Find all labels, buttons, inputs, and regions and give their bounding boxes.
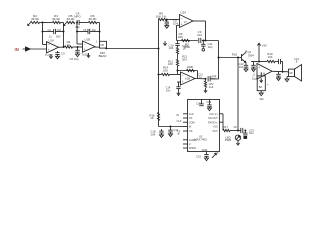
- wire fb2 left vertical: [76, 23, 78, 32]
- capacitor C13 label: [198, 73, 203, 79]
- svg-text:49.9K: 49.9K: [31, 17, 40, 21]
- op-amp U1B pins: [82, 53, 90, 57]
- wire minus stub 2: [77, 32, 83, 45]
- IC U3 left pin 3: [183, 121, 195, 124]
- svg-text:LM: LM: [262, 73, 265, 76]
- IC U3 left pin 1: [183, 113, 194, 116]
- resistor R9 label: [184, 42, 191, 49]
- wire to U2B minus: [159, 74, 181, 76]
- svg-text:33p: 33p: [75, 25, 80, 29]
- wire input: [30, 48, 47, 50]
- bottom text 1: [177, 129, 181, 136]
- node G junction: [205, 40, 207, 42]
- capacitor C23 label: [267, 52, 273, 59]
- wire top2b: [97, 22, 100, 24]
- svg-text:+: +: [182, 80, 184, 84]
- node mid1 left junction: [42, 31, 44, 33]
- svg-text:U1A: U1A: [49, 39, 55, 43]
- capacitor C4 label: [74, 12, 81, 19]
- capacitor C24: [251, 62, 255, 69]
- buzzer ground: [259, 91, 263, 96]
- ground g1: [56, 56, 60, 59]
- svg-text:FB: FB: [101, 43, 105, 47]
- op-amp U2A part: [184, 21, 187, 24]
- node S junction: [282, 71, 284, 73]
- resistor R4 label: [67, 40, 71, 47]
- svg-text:−: −: [181, 17, 183, 21]
- node A junction: [42, 22, 44, 24]
- svg-text:CLK: CLK: [176, 119, 181, 123]
- svg-text:−: −: [258, 75, 260, 79]
- test point TP2 label: [166, 86, 171, 93]
- svg-text:+: +: [258, 66, 260, 70]
- capacitor C2 label: [48, 28, 62, 32]
- svg-text:CLK: CLK: [189, 113, 194, 116]
- svg-text:BZ: BZ: [259, 85, 263, 89]
- resistor R11 label: [168, 59, 173, 66]
- capacitor C22 label: [239, 62, 244, 69]
- ground g14: [244, 69, 248, 72]
- wire r17 to node: [230, 130, 241, 132]
- node E junction: [158, 48, 160, 50]
- wire out1b: [73, 46, 83, 48]
- wire fb left vertical: [42, 23, 44, 45]
- op-amp U1A pins: [45, 53, 53, 57]
- op-amp U2B minus: [182, 74, 184, 78]
- svg-text:uF: uF: [177, 132, 180, 136]
- resistor R3 label: [52, 14, 61, 21]
- IC bottom arrow: [212, 152, 219, 158]
- svg-text:100K: 100K: [187, 65, 194, 69]
- IC U3 right text 1: [209, 113, 218, 116]
- svg-text:V-: V-: [189, 143, 192, 146]
- op-amp U2B: [181, 72, 196, 85]
- wire out row78: [210, 78, 218, 80]
- wire U2A out: [193, 20, 206, 22]
- capacitor C5: [88, 29, 90, 34]
- resistor R13 label: [187, 65, 194, 69]
- capacitor C18: [159, 129, 163, 135]
- resistor R5: [67, 21, 75, 23]
- power +9V: [257, 43, 266, 47]
- resistor R13: [187, 69, 195, 71]
- wire fb2 right vertical: [99, 23, 101, 42]
- node mid2 left junction: [76, 31, 78, 33]
- resistor R9: [182, 39, 190, 41]
- svg-text:104: 104: [173, 21, 178, 25]
- resistor R3: [53, 21, 61, 23]
- capacitor C25: [276, 72, 280, 78]
- IC U3 right pin 8: [220, 113, 224, 115]
- node R junction: [258, 61, 260, 63]
- wire U4 out: [273, 70, 289, 73]
- net label row: [176, 113, 181, 123]
- svg-text:+: +: [48, 48, 50, 52]
- svg-text:1uF: 1uF: [209, 85, 214, 89]
- svg-text:−: −: [182, 74, 184, 78]
- svg-text:10n: 10n: [166, 88, 171, 92]
- op-amp U1B minus: [84, 42, 86, 46]
- svg-text:COM: COM: [189, 121, 195, 124]
- capacitor C21: [243, 131, 247, 139]
- op-amp U2A name: [181, 10, 187, 14]
- resistor R2: [31, 21, 40, 23]
- transistor Q2 label: [225, 135, 232, 142]
- capacitor C4: [77, 20, 79, 25]
- wire row40: [177, 40, 198, 42]
- divider chain mid2: [177, 54, 179, 60]
- ground g13: [236, 141, 239, 145]
- svg-text:10K: 10K: [163, 69, 168, 73]
- svg-text:32k: 32k: [259, 97, 264, 101]
- svg-text:RATIO-L: RATIO-L: [208, 121, 218, 124]
- chassis tick 1: [28, 23, 31, 26]
- IC U3 bottom text: [202, 149, 208, 152]
- resistor R14: [162, 73, 170, 75]
- svg-text:SO-OUT: SO-OUT: [208, 117, 218, 120]
- svg-text:C6 10p: C6 10p: [69, 57, 78, 61]
- svg-text:IN: IN: [177, 113, 180, 117]
- svg-text:5: 5: [254, 74, 256, 77]
- svg-text:10K 1%: 10K 1%: [156, 14, 167, 18]
- wire bus1: [106, 48, 158, 50]
- svg-text:CS: CS: [189, 117, 193, 120]
- ground g6: [177, 92, 180, 96]
- IC U3 left pin 6: [183, 139, 196, 142]
- svg-text:+OS: +OS: [213, 126, 218, 129]
- node M junction: [170, 126, 172, 128]
- IC U3 right text 2: [208, 117, 218, 120]
- wire mid2 right: [90, 31, 100, 33]
- svg-text:100: 100: [268, 55, 273, 59]
- op-amp U1A minus: [48, 43, 50, 47]
- wire right vertical: [218, 41, 220, 80]
- svg-text:10u: 10u: [249, 131, 254, 135]
- svg-text:1K: 1K: [233, 125, 237, 129]
- ground g9: [208, 108, 212, 111]
- resistor R15 label: [209, 82, 214, 89]
- node O junction: [244, 130, 246, 132]
- svg-text:C16: C16: [207, 101, 212, 104]
- speaker LS1 label: [294, 57, 299, 64]
- transistor Q1: [242, 52, 247, 62]
- svg-text:104: 104: [169, 46, 174, 50]
- speaker ground stem: [287, 77, 289, 80]
- IC U3 left pin 4: [183, 126, 191, 129]
- IC U3 right pin 7: [220, 121, 224, 123]
- svg-text:+: +: [181, 23, 183, 27]
- node P label: [232, 52, 238, 56]
- node IN label: [15, 47, 19, 52]
- ground g10: [205, 158, 209, 161]
- transistor Q1 label: [248, 50, 252, 54]
- node C junction: [77, 46, 79, 48]
- op-amp U1A plus: [48, 48, 50, 52]
- speaker LS1: [289, 65, 302, 82]
- svg-text:10p: 10p: [208, 45, 213, 49]
- svg-text:104: 104: [197, 33, 202, 37]
- wire to Q1: [238, 57, 242, 59]
- svg-text:SP: SP: [289, 72, 293, 75]
- node N junction: [237, 130, 239, 132]
- svg-text:+9V: +9V: [262, 44, 267, 48]
- capacitor C17 label: [174, 128, 179, 132]
- wire main vertical: [158, 20, 160, 127]
- resistor R9 name: [178, 32, 183, 39]
- svg-text:50V: 50V: [56, 34, 61, 38]
- op-amp U1B: [83, 41, 96, 52]
- capacitor C2: [54, 29, 56, 34]
- capacitor C5 label: [83, 28, 96, 32]
- capacitor C23: [279, 59, 281, 64]
- test point TP1 label: [207, 42, 212, 49]
- resistor R5 label: [66, 14, 75, 21]
- svg-text:10K: 10K: [168, 62, 173, 66]
- ground g16: [277, 78, 281, 81]
- test point TP1: [201, 41, 205, 52]
- resistor R16 label: [149, 113, 155, 120]
- wire row126: [159, 126, 184, 128]
- power arrow P1: [163, 41, 166, 45]
- input arrow: [23, 47, 31, 51]
- op-amp U4 label: [254, 77, 258, 81]
- resistor R11 value: [182, 55, 188, 62]
- capacitor C9: [199, 38, 201, 43]
- capacitor C21 label: [249, 128, 255, 135]
- ground g12: [160, 135, 164, 138]
- wire U2A plus stub: [177, 25, 180, 40]
- svg-text:104: 104: [239, 65, 244, 69]
- node mid1 right junction: [63, 31, 65, 33]
- op-amp U2B name: [185, 76, 190, 80]
- resistor R17 label: [223, 125, 229, 129]
- op-amp U2A minus: [181, 17, 183, 21]
- svg-text:+: +: [267, 83, 269, 87]
- svg-text:PWR: PWR: [225, 138, 232, 142]
- svg-text:U2B: U2B: [185, 76, 190, 80]
- wire fb right vertical: [63, 23, 65, 48]
- node out1 junction: [63, 46, 65, 48]
- resistor R4: [65, 46, 73, 48]
- op-amp U2B plus: [182, 80, 184, 84]
- op-amp U2A plus: [181, 23, 183, 27]
- resistor R17: [223, 129, 230, 131]
- buzzer BZ1: [257, 72, 265, 90]
- IC bottom label: [196, 155, 201, 159]
- svg-text:IN: IN: [189, 126, 192, 129]
- resistor R15: [204, 79, 206, 88]
- capacitor C6 label: [69, 57, 78, 61]
- ground g15: [252, 69, 256, 72]
- IC U3 right text 4: [213, 126, 218, 129]
- wire to U2A: [167, 19, 180, 21]
- resistor R14 label: [163, 66, 169, 73]
- svg-text:−: −: [48, 43, 50, 47]
- svg-text:−: −: [84, 42, 86, 46]
- ferrite FB1: [100, 41, 107, 48]
- wire minus stub 1: [43, 44, 47, 46]
- svg-text:49.9K: 49.9K: [52, 17, 61, 21]
- node F junction: [166, 19, 168, 21]
- wire top2: [79, 22, 88, 24]
- wire fb4 top: [178, 70, 198, 72]
- IC U3 bottom cap: [204, 152, 208, 159]
- wire 9v down: [258, 47, 260, 61]
- resistor R2 label: [31, 14, 40, 21]
- node P junction: [237, 57, 239, 59]
- svg-text:49.9K: 49.9K: [88, 17, 97, 21]
- ground g4: [87, 53, 90, 57]
- transistor Q1 collector: [245, 51, 247, 53]
- svg-text:5: 5: [217, 152, 219, 155]
- chassis tick 2: [64, 23, 67, 26]
- capacitor C8 label: [173, 19, 178, 26]
- svg-text:C3: C3: [61, 52, 65, 56]
- svg-text:MAX7400: MAX7400: [194, 138, 207, 142]
- ground g3: [76, 54, 80, 57]
- wire top1b: [61, 22, 64, 24]
- op-amp U1A name: [49, 39, 55, 43]
- wire U2B out: [195, 78, 206, 80]
- IC U3 left pin 7: [183, 143, 191, 146]
- svg-text:BEAD: BEAD: [99, 54, 107, 58]
- op-amp U4: [257, 64, 272, 80]
- op-amp U4 name: [262, 73, 265, 76]
- capacitor C8: [165, 20, 169, 26]
- capacitor C17: [168, 127, 172, 134]
- node B junction: [76, 22, 78, 24]
- svg-text:1: 1: [96, 40, 98, 43]
- capacitor C20: [241, 128, 243, 133]
- wire rail61: [251, 61, 267, 63]
- resistor R8 label: [156, 11, 167, 18]
- resistor R16: [157, 113, 159, 121]
- op-amp U1B pin1: [96, 40, 98, 43]
- IC U3 box: [188, 100, 220, 152]
- svg-text:LT: LT: [184, 21, 187, 24]
- wire mid1 right: [56, 31, 64, 33]
- wire row40b: [202, 40, 219, 42]
- IC U3 left pin 5: [183, 130, 193, 133]
- resistor R11: [176, 60, 178, 66]
- op-amp U4 plus2: [258, 75, 260, 79]
- ground g5: [165, 26, 169, 29]
- IC U3 right text 5: [213, 130, 219, 133]
- svg-text:+: +: [84, 48, 86, 52]
- node H junction: [202, 40, 204, 42]
- op-amp U2A: [180, 15, 194, 28]
- capacitor C15: [196, 100, 204, 106]
- transistor Q2: [235, 135, 240, 140]
- capacitor C18 label: [150, 130, 156, 137]
- resistor R10 label: [168, 43, 174, 50]
- wire long vertical Q: [237, 58, 239, 131]
- node I junction: [218, 57, 220, 59]
- transistor Q1 part: [248, 53, 254, 57]
- wire U2A out vertical: [205, 21, 207, 41]
- resistor R19: [267, 60, 275, 62]
- node N label: [233, 125, 237, 129]
- wire fb4 right: [197, 71, 199, 79]
- wire rail corner: [282, 62, 284, 72]
- wire out1: [58, 46, 64, 48]
- capacitor C2 value: [48, 34, 61, 38]
- node D junction: [105, 47, 107, 49]
- capacitor C9 label: [197, 30, 202, 37]
- svg-text:IN: IN: [15, 47, 19, 52]
- node K junction: [158, 74, 160, 76]
- capacitor C3 label: [61, 52, 65, 56]
- svg-text:204: 204: [182, 58, 187, 62]
- svg-text:SHDN: SHDN: [189, 147, 196, 150]
- svg-text:U2A: U2A: [181, 10, 187, 14]
- divider chain vertical top: [177, 41, 179, 44]
- svg-text:1K: 1K: [150, 116, 154, 120]
- resistor R6 label: [88, 14, 97, 21]
- resistor R10 value: [183, 44, 189, 51]
- node L junction: [205, 78, 207, 80]
- wire rail61a: [275, 61, 278, 63]
- capacitor C13 label2: [210, 75, 217, 81]
- ground g11: [169, 134, 173, 137]
- op-amp U1B plus: [84, 48, 86, 52]
- wire mid1 left: [43, 31, 54, 33]
- svg-text:TL082: TL082: [45, 53, 53, 57]
- op-amp U1B name: [85, 38, 91, 42]
- svg-text:20K: 20K: [178, 35, 183, 39]
- capacitor C16: [207, 100, 212, 109]
- wire top1: [40, 22, 53, 24]
- capacitor C22: [244, 63, 248, 70]
- ground g2: [49, 54, 52, 58]
- capacitor C10: [175, 44, 179, 46]
- IC U3 right text 3: [208, 121, 218, 124]
- capacitor C13: [208, 76, 210, 81]
- wire mid2 left: [77, 31, 88, 33]
- divider chain bottom: [177, 66, 179, 75]
- wire out2: [95, 46, 100, 48]
- capacitor C6: [75, 47, 79, 54]
- capacitor C4 value: [75, 25, 80, 29]
- divider chain mid1: [177, 45, 179, 47]
- IC U3 left pin 8: [183, 147, 196, 150]
- svg-text:R18: R18: [232, 52, 238, 56]
- node J junction: [177, 70, 179, 72]
- svg-text:1K: 1K: [183, 47, 187, 51]
- op-amp U4 plus1: [258, 66, 260, 70]
- op-amp U1A: [47, 42, 59, 53]
- node mid2 right junction: [99, 31, 101, 33]
- ferrite FB1 label: [99, 51, 107, 58]
- svg-text:104: 104: [151, 132, 156, 136]
- resistor R8: [159, 18, 167, 20]
- IC U3 name: [194, 135, 207, 142]
- buzzer BZ1 plus: [267, 83, 269, 87]
- capacitor C3: [55, 51, 59, 56]
- svg-text:OUT: OUT: [213, 130, 219, 133]
- wire row57: [219, 57, 239, 59]
- resistor R6: [89, 21, 97, 23]
- wire U2B plus stub: [177, 81, 181, 83]
- IC U3 left pin 2: [183, 117, 193, 120]
- svg-text:C19: C19: [196, 155, 201, 159]
- capacitor C12: [176, 82, 180, 92]
- ground g7: [204, 88, 207, 92]
- svg-text:R17: R17: [223, 125, 229, 129]
- wire rail61b: [281, 61, 283, 63]
- ground g17: [285, 79, 289, 82]
- buzzer label: [259, 97, 264, 101]
